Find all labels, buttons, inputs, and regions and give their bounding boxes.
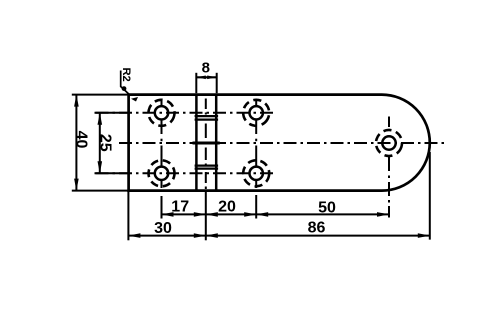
dimension line 8: [196, 76, 216, 78]
R2 leader kink blob: [122, 86, 127, 91]
dimension line 30: [128, 235, 205, 237]
hole bottom-left: [147, 159, 176, 188]
extension line bottom-left: [72, 190, 129, 192]
svg-text:25: 25: [96, 134, 113, 152]
hole top-right: [238, 95, 274, 131]
dimension line 20: [206, 213, 256, 215]
left hole column centerline: [161, 99, 163, 189]
svg-text:40: 40: [73, 131, 90, 149]
knuckle strip left line: [195, 95, 198, 191]
svg-text:8: 8: [202, 60, 210, 77]
hole right end: [373, 127, 406, 160]
knuckle joint lines bottom pair: [195, 166, 219, 169]
dimension 8 left arrowhead: [197, 76, 206, 80]
dimension line 86: [206, 235, 430, 237]
svg-text:50: 50: [318, 199, 336, 216]
right hole vertical centerline: [388, 117, 390, 218]
dimension line 50: [256, 213, 389, 215]
extension line top row left (solid over centerline): [95, 112, 130, 114]
extension line bottom row left (solid over centerline): [95, 172, 130, 174]
hinge plate outline: [129, 95, 430, 191]
dimension 8 right arrowhead: [207, 76, 216, 80]
top hole row centerline: [96, 112, 275, 114]
svg-text:86: 86: [308, 220, 326, 237]
svg-text:R2: R2: [120, 67, 132, 81]
dimension line 25: [99, 113, 101, 174]
svg-text:17: 17: [171, 199, 189, 216]
knuckle joint lines top pair: [195, 116, 219, 120]
svg-text:30: 30: [154, 220, 172, 237]
hole bottom-right: [242, 159, 270, 187]
right hole column centerline: [255, 100, 257, 189]
extension line right end down: [429, 152, 431, 240]
bottom hole row centerline: [96, 172, 275, 174]
svg-text:20: 20: [218, 199, 236, 216]
knuckle strip right line: [215, 95, 218, 191]
extension line pin down: [205, 191, 207, 240]
extension line left edge down: [127, 191, 129, 241]
R2 leader line: [121, 71, 129, 95]
knuckle joint middle bar: [193, 141, 220, 144]
dimension line 40: [75, 95, 77, 191]
extension line hole col1 down: [161, 196, 163, 219]
R2 leader arrowhead: [131, 97, 138, 102]
dimension line 17: [162, 213, 206, 215]
extension line 8-dim left: [195, 73, 197, 93]
extension line hole col2 down: [255, 195, 257, 219]
main horizontal centerline: [119, 142, 444, 144]
pin vertical centerline: [205, 99, 207, 190]
extension line 8-dim right: [216, 73, 218, 93]
extension line top-left: [72, 94, 129, 96]
hole top-left: [146, 97, 177, 128]
